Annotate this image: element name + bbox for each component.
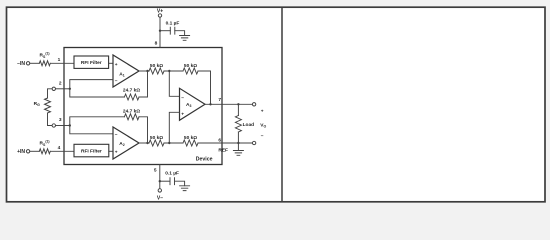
- pin 5 wire: [159, 165, 161, 189]
- resistor Load: [235, 116, 241, 132]
- wire A3 output pin 7: [205, 103, 252, 105]
- svg-text:Device: Device: [196, 156, 213, 162]
- resistor RS1: [39, 61, 50, 66]
- wire V+ to pin 8: [159, 17, 161, 47]
- node top mid: [168, 70, 170, 72]
- svg-text:−: −: [181, 96, 184, 101]
- wire RFI1 to A1: [109, 62, 113, 64]
- wire junction to cap C1: [160, 30, 170, 32]
- wire cap C2 to ground: [175, 181, 185, 186]
- V- terminal: [158, 189, 161, 192]
- svg-text:RFI Filter: RFI Filter: [81, 148, 102, 154]
- svg-text:−: −: [115, 133, 118, 138]
- wire pin3 node to A2 feedback resistor: [70, 117, 125, 126]
- wire -IN to Rs1: [30, 62, 40, 64]
- svg-text:1: 1: [58, 57, 61, 63]
- svg-text:V+: V+: [157, 9, 163, 15]
- svg-text:6: 6: [218, 137, 221, 143]
- wire top mid to A3 inverting input: [169, 71, 179, 96]
- V+ terminal: [158, 14, 161, 17]
- pin 3 terminal: [52, 124, 55, 127]
- wire junction to cap C2: [160, 180, 170, 182]
- panel divider: [281, 7, 283, 202]
- ground G1: [180, 36, 190, 41]
- wire pin3 into box: [56, 125, 70, 127]
- wire load bottom: [237, 132, 239, 143]
- svg-text:REF: REF: [218, 148, 228, 154]
- wire pin2 node to A1 inverting input: [70, 80, 113, 89]
- svg-text:+: +: [261, 109, 264, 114]
- device box U-left: [64, 48, 222, 165]
- svg-text:50 kΩ: 50 kΩ: [150, 63, 163, 69]
- svg-text:3: 3: [59, 117, 62, 123]
- svg-text:+IN: +IN: [17, 149, 25, 155]
- op-amp A1: [113, 55, 139, 87]
- wire +IN to Rs2: [30, 150, 40, 152]
- svg-text:8: 8: [155, 41, 158, 47]
- wire pin2 into box: [56, 88, 70, 90]
- node bottom mid: [168, 142, 170, 144]
- wire Rs1 to pin 1 / RFI filter: [50, 62, 74, 64]
- svg-text:24.7 kΩ: 24.7 kΩ: [123, 108, 140, 114]
- svg-text:Load: Load: [243, 122, 255, 128]
- svg-text:−: −: [115, 79, 118, 84]
- wire cap C1 to ground: [175, 31, 185, 36]
- node pin7 feedback: [209, 103, 211, 105]
- node A2 output: [146, 142, 148, 144]
- svg-text:+: +: [181, 113, 184, 118]
- wire 50k3 to 50k4: [164, 142, 183, 144]
- resistor 50k top-2: [183, 68, 198, 74]
- svg-text:50 kΩ: 50 kΩ: [150, 135, 163, 141]
- capacitor C2 0.1uF: [170, 178, 175, 185]
- pin 2 terminal: [52, 87, 55, 90]
- svg-text:RFI Filter: RFI Filter: [81, 60, 102, 66]
- node pin5-cap junction: [159, 180, 161, 182]
- wire bottom mid to A3 non-inverting input: [169, 112, 179, 143]
- VO- terminal: [252, 141, 255, 144]
- resistor RG external: [45, 98, 51, 113]
- wire 50k2 to pin7 node: [198, 71, 211, 104]
- svg-text:24.7 kΩ: 24.7 kΩ: [123, 88, 140, 94]
- ground G2 on REF: [233, 143, 243, 155]
- wire A2 output: [139, 142, 149, 144]
- wire A1 output: [139, 70, 149, 72]
- svg-text:0.1 µF: 0.1 µF: [165, 171, 179, 177]
- resistor RS2: [39, 149, 50, 154]
- op-amp A2: [113, 127, 139, 159]
- svg-text:4: 4: [58, 145, 61, 151]
- resistor 50k bottom-2: [183, 140, 198, 146]
- resistor 50k bottom-1: [149, 140, 164, 146]
- resistor 24.7k A2 feedback: [124, 114, 139, 120]
- svg-text:50 kΩ: 50 kΩ: [184, 63, 197, 69]
- node load top: [237, 103, 239, 105]
- svg-text:V−: V−: [157, 196, 163, 202]
- -IN terminal: [26, 62, 29, 65]
- wire pin2 to RG: [48, 89, 53, 98]
- wire load top: [237, 104, 239, 115]
- node load bottom: [237, 142, 239, 144]
- node pin3 junction: [69, 124, 71, 126]
- wire RG to pin3: [48, 113, 53, 126]
- RFI filter box 1: [74, 56, 109, 68]
- wire pin3 node to A2 inverting input: [70, 126, 113, 134]
- svg-text:50 kΩ: 50 kΩ: [184, 135, 197, 141]
- wire 24.7k to A2 output: [139, 117, 148, 143]
- RFI filter box 2: [74, 144, 109, 157]
- svg-text:0.1 µF: 0.1 µF: [166, 21, 180, 27]
- panel background: [7, 7, 546, 202]
- svg-text:−: −: [261, 134, 264, 139]
- svg-text:+: +: [115, 63, 118, 68]
- capacitor C1 0.1uF: [170, 27, 175, 34]
- wire RFI2 to A2: [109, 150, 113, 152]
- node A1 output: [146, 70, 148, 72]
- wire pin2 node to feedback resistor: [70, 89, 125, 97]
- op-amp A3: [180, 88, 206, 120]
- outer frame: [7, 7, 546, 202]
- wire Rs2 to pin 4 / RFI filter: [50, 150, 74, 152]
- node pin2 junction: [69, 88, 71, 90]
- svg-text:7: 7: [218, 97, 221, 103]
- svg-text:2: 2: [59, 81, 62, 87]
- svg-text:5: 5: [154, 168, 157, 174]
- ground G3: [180, 186, 190, 191]
- resistor 50k top-1: [149, 68, 164, 74]
- node pin8-cap junction: [159, 30, 161, 32]
- svg-text:+: +: [115, 151, 118, 156]
- wire 24.7k to A1 output: [139, 71, 148, 97]
- svg-text:−IN: −IN: [17, 61, 25, 67]
- wire 50k1 to 50k2: [164, 70, 183, 72]
- wire 50k4 to pin 6 REF: [198, 142, 252, 144]
- +IN terminal: [26, 150, 29, 153]
- VO+ terminal: [252, 103, 255, 106]
- resistor 24.7k A1 feedback: [124, 94, 139, 100]
